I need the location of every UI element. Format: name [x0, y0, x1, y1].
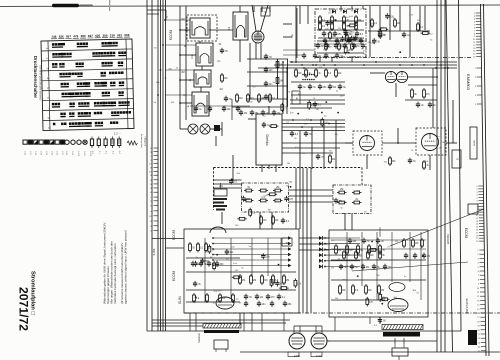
amp B outline	[329, 230, 428, 317]
svg-text:2M: 2M	[332, 159, 335, 161]
svg-text:2M: 2M	[235, 270, 238, 272]
amp B components	[331, 244, 426, 300]
svg-text:1M: 1M	[279, 81, 282, 83]
dial lamp 1	[188, 124, 198, 134]
svg-text:ECC83: ECC83	[169, 30, 173, 41]
tube V1 mixer	[252, 31, 264, 43]
res pre-amp 2	[272, 215, 280, 225]
svg-text:1.010: 1.010	[77, 151, 79, 157]
connector ticks low	[477, 250, 486, 353]
svg-text:Drehko: Drehko	[265, 135, 269, 146]
pointer line 1	[390, 209, 484, 246]
dashdot box top-right	[315, 9, 366, 57]
connector ticks top	[473, 13, 481, 59]
svg-text:ECC83: ECC83	[464, 228, 468, 239]
svg-text:525: 525	[95, 34, 100, 38]
svg-text:EMM803: EMM803	[466, 74, 471, 91]
wire extra rails	[157, 19, 315, 96]
wire frame-left pair	[147, 0, 152, 331]
svg-text:f. Abgleich: f. Abgleich	[144, 136, 147, 147]
ladder resistors	[276, 60, 284, 86]
svg-text:2M: 2M	[276, 187, 279, 189]
scatter components texture	[193, 13, 430, 306]
notes text block	[103, 222, 128, 304]
svg-text:2M: 2M	[366, 267, 369, 269]
svg-text:2M: 2M	[267, 209, 270, 211]
pot left of matrix	[214, 183, 227, 196]
wire funnel	[252, 5, 268, 31]
IF can 4	[188, 92, 209, 116]
tube V5 arc	[210, 227, 226, 233]
svg-text:2M: 2M	[335, 298, 338, 300]
svg-text:EL84 6,9%: EL84 6,9%	[465, 299, 469, 314]
amp A outline	[184, 229, 299, 313]
legend symbols	[23, 137, 121, 149]
wire left bus bundle	[158, 0, 166, 331]
rectifier tube B1	[289, 326, 305, 358]
dashed box around can1	[187, 15, 217, 41]
amp A vertical wires	[205, 238, 281, 302]
left bus pin stubs	[149, 148, 158, 233]
wire bottom edge line	[240, 351, 500, 353]
scan speck	[109, 0, 110, 11]
wire matrix-amp links	[222, 212, 352, 230]
wire chassis dashdot top	[315, 57, 472, 59]
junction dots rails	[291, 61, 449, 128]
pointer line 2	[352, 262, 468, 271]
svg-text:1M: 1M	[209, 257, 212, 259]
black box right edge	[468, 330, 477, 345]
wire rails y100	[290, 100, 345, 108]
svg-text:2M: 2M	[353, 241, 356, 243]
svg-text:057: 057	[66, 34, 71, 38]
svg-text:TA/TB: TA/TB	[473, 140, 476, 147]
wire top drops	[254, 6, 420, 62]
svg-text:1M: 1M	[324, 122, 327, 124]
connector ticks mid2	[476, 186, 484, 243]
cap c rail3	[316, 154, 325, 160]
wire h rails mid	[299, 238, 329, 250]
rect label left circle	[288, 352, 322, 357]
svg-text:1M: 1M	[333, 87, 336, 89]
label stack	[213, 198, 227, 211]
cluster top right sparse	[368, 18, 430, 38]
res r v4b	[423, 160, 430, 170]
dashed net line	[214, 168, 363, 211]
amp A row arrows	[212, 236, 291, 267]
svg-text:1M: 1M	[244, 113, 247, 115]
control box 2	[468, 204, 478, 214]
svg-text:2M: 2M	[338, 250, 341, 252]
wire v x269	[268, 165, 270, 169]
wire v1 down	[256, 43, 261, 59]
svg-text:2M: 2M	[242, 280, 245, 282]
wire drop links	[282, 24, 446, 69]
wire long h2	[166, 247, 184, 249]
IF can 5	[229, 12, 248, 40]
control box 1	[452, 150, 461, 168]
cap pre-amp	[281, 218, 290, 224]
wire bottom links	[152, 313, 437, 341]
ratio detector grid	[241, 187, 293, 202]
labels IF column	[181, 19, 225, 109]
svg-text:6,9%: 6,9%	[152, 248, 156, 255]
top-right cluster components	[317, 8, 364, 53]
pot box amp B	[282, 238, 292, 246]
speaker left	[214, 340, 228, 352]
svg-text:2M: 2M	[332, 36, 335, 38]
svg-text:2071/72: 2071/72	[17, 287, 31, 331]
dashed box V4	[416, 128, 446, 155]
amp B diode ladder	[319, 236, 360, 269]
scan top edge smudge	[52, 4, 93, 7]
svg-text:EL84: EL84	[178, 296, 182, 304]
wire bottom dashdot	[185, 312, 500, 314]
wire supply rails	[248, 119, 353, 153]
cap row y47	[316, 43, 365, 49]
wire top-left shorts	[147, 10, 166, 20]
wire x297 vertical	[292, 8, 297, 58]
scan top edge line	[0, 5, 500, 7]
svg-text:1.012: 1.012	[89, 151, 91, 157]
svg-text:Ersatzzeichen: Ersatzzeichen	[140, 134, 143, 149]
cluster dashdot box boost	[318, 21, 368, 44]
wire right mid verticals	[433, 68, 453, 143]
cap c col a	[220, 48, 229, 54]
wire drop x300	[300, 120, 336, 169]
svg-text:ECC83: ECC83	[446, 234, 450, 244]
svg-text:Drucktastenschalter: Drucktastenschalter	[33, 56, 38, 99]
ladder caps	[264, 54, 273, 100]
wire bottom short verticals	[190, 313, 335, 331]
legend resistor zigzag	[127, 141, 137, 145]
svg-text:1M: 1M	[261, 98, 264, 100]
svg-text:against chassis, without signa: against chassis, without signal input, U…	[124, 230, 128, 304]
svg-text:1M: 1M	[381, 290, 384, 292]
svg-text:380: 380	[81, 34, 86, 38]
connector strip lines	[481, 4, 490, 356]
cap c rail1	[290, 131, 299, 137]
svg-text:St: St	[264, 11, 267, 14]
res r rail	[329, 154, 336, 164]
pushbutton switch table	[41, 33, 134, 131]
tube V8	[388, 299, 408, 312]
cap c2 col a	[224, 96, 233, 102]
dashed box V3	[353, 131, 382, 155]
legend caption	[140, 134, 147, 149]
tube V7	[389, 283, 405, 292]
label box UKW	[261, 8, 270, 16]
scatter value labels	[154, 12, 446, 304]
svg-text:nur einer gedrückt (alle ander: nur einer gedrückt (alle anderen)	[39, 66, 42, 101]
tube V2b	[396, 71, 407, 82]
wire top rails	[258, 62, 457, 68]
svg-text:1M: 1M	[219, 89, 222, 91]
svg-text:318: 318	[110, 33, 115, 37]
density fill cluster	[152, 53, 430, 331]
wire top verticals mid	[296, 6, 425, 62]
tube V4	[422, 134, 439, 151]
wire bottom frame	[147, 330, 461, 332]
svg-text:2M: 2M	[439, 147, 442, 149]
svg-text:748: 748	[51, 35, 56, 39]
speaker right	[392, 344, 408, 356]
cluster mid left	[232, 93, 283, 120]
control box tall	[470, 127, 477, 159]
svg-text:561: 561	[117, 33, 122, 37]
svg-text:2M: 2M	[340, 189, 343, 191]
AM det grid	[334, 189, 362, 204]
wire lamps	[180, 122, 222, 146]
wire transformer verticals right	[370, 317, 404, 360]
black mark near lamps	[214, 125, 220, 131]
rectifier tube B2	[311, 326, 327, 358]
wire drehko leads	[262, 106, 276, 172]
wire right line2	[459, 0, 462, 331]
amp A components	[186, 242, 296, 302]
wire col a	[180, 6, 186, 129]
svg-text:2M: 2M	[340, 41, 343, 43]
svg-text:ECC83: ECC83	[378, 227, 382, 236]
cap c v4	[408, 158, 417, 164]
Drehko tuning box	[256, 114, 282, 165]
tone network cluster	[405, 85, 437, 108]
output transformer right	[382, 325, 423, 337]
wire v x283	[283, 62, 287, 114]
wire right long line	[446, 0, 453, 352]
output transformer left	[203, 324, 241, 334]
svg-text:ECC83: ECC83	[172, 271, 176, 282]
svg-text:1M: 1M	[356, 190, 359, 192]
IF can 2	[192, 43, 213, 66]
connector ticks mid1	[475, 68, 482, 106]
tube V2a	[385, 71, 396, 82]
cap c rail2	[304, 131, 313, 137]
svg-text:927: 927	[88, 34, 93, 38]
svg-text:2M: 2M	[286, 280, 289, 282]
svg-text:479: 479	[73, 34, 78, 38]
wire matrix feeds	[214, 155, 334, 229]
res r v3	[389, 156, 397, 166]
svg-text:2M: 2M	[253, 280, 256, 282]
scatter boost 3	[200, 19, 386, 327]
mixer tube shade	[254, 33, 263, 42]
svg-text:2M: 2M	[316, 109, 319, 111]
dashdot box AM det	[333, 185, 371, 214]
res r col a	[221, 73, 229, 83]
res pre-amp 1	[260, 215, 268, 225]
wire long h1	[152, 238, 184, 240]
svg-text:309: 309	[102, 34, 107, 38]
IF can 3	[190, 70, 211, 87]
wire mid verticals	[303, 168, 311, 313]
svg-text:1M: 1M	[331, 268, 334, 270]
legend item labels	[24, 151, 121, 157]
svg-text:1 2·· ··: 1 2·· ··	[114, 132, 122, 136]
wire v2 rails	[370, 73, 438, 97]
svg-text:008: 008	[124, 33, 129, 37]
svg-text:Verbindes Farbcode bezeugt sin: Verbindes Farbcode bezeugt sind, vorhand…	[113, 243, 117, 304]
svg-text:526: 526	[59, 35, 64, 39]
svg-text:Netztrafo: Netztrafo	[198, 332, 201, 342]
wire right bus bundle	[437, 0, 445, 352]
wire can links	[179, 6, 240, 104]
tube V3	[360, 136, 375, 151]
small box mid	[292, 91, 300, 104]
ladder rails left	[247, 43, 288, 107]
amp B extra row	[331, 238, 426, 260]
IF can 1	[186, 18, 210, 38]
svg-text:1M: 1M	[427, 256, 430, 258]
svg-text:1M: 1M	[260, 297, 263, 299]
svg-text:2M: 2M	[181, 72, 184, 74]
cluster mid top	[291, 68, 347, 95]
dashdot box ratio detector	[242, 183, 289, 212]
dot rows connector	[302, 74, 315, 81]
wire v3 v4	[345, 128, 457, 170]
amp B vertical wires	[347, 232, 421, 300]
dial lamp 2	[200, 124, 210, 134]
tube V6	[216, 297, 234, 309]
